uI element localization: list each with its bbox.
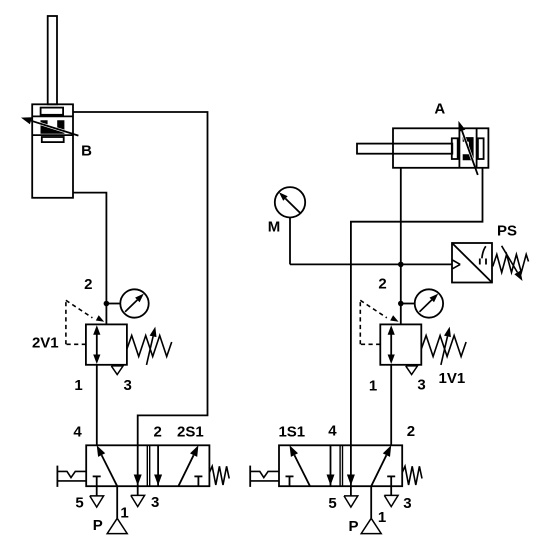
svg-text:5: 5 — [328, 495, 336, 512]
svg-text:4: 4 — [73, 424, 82, 441]
svg-text:2V1: 2V1 — [32, 335, 59, 352]
svg-text:1: 1 — [120, 505, 128, 522]
svg-text:3: 3 — [403, 495, 411, 512]
svg-text:PS: PS — [497, 222, 517, 239]
svg-text:A: A — [434, 101, 445, 118]
svg-text:M: M — [268, 219, 281, 236]
svg-text:1: 1 — [378, 509, 386, 526]
svg-text:P: P — [348, 518, 358, 535]
svg-text:B: B — [81, 142, 92, 159]
svg-text:1S1: 1S1 — [278, 424, 305, 441]
svg-text:1V1: 1V1 — [439, 370, 466, 387]
svg-text:P: P — [93, 517, 103, 534]
svg-text:2S1: 2S1 — [177, 424, 204, 441]
svg-text:2: 2 — [154, 424, 162, 441]
svg-text:1: 1 — [74, 377, 82, 394]
svg-text:5: 5 — [75, 495, 83, 512]
svg-text:3: 3 — [417, 377, 425, 394]
svg-text:4: 4 — [328, 423, 337, 440]
svg-text:2: 2 — [407, 423, 415, 440]
svg-text:3: 3 — [124, 377, 132, 394]
svg-text:2: 2 — [84, 276, 92, 293]
svg-text:2: 2 — [378, 275, 386, 292]
svg-text:1: 1 — [369, 377, 377, 394]
svg-text:3: 3 — [151, 494, 159, 511]
